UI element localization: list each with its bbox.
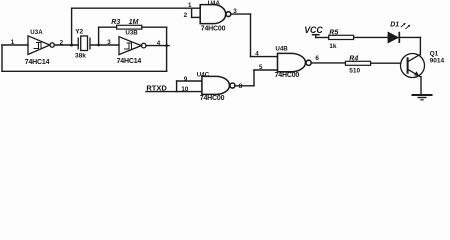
wire U3A output to crystal: [54, 44, 78, 46]
node junction at U3A output: [70, 44, 73, 47]
svg-text:74HC00: 74HC00: [201, 25, 226, 32]
wire VCC to R5: [316, 37, 329, 39]
svg-text:R3: R3: [111, 19, 120, 26]
svg-text:2: 2: [60, 39, 64, 46]
svg-text:74HC14: 74HC14: [117, 58, 142, 65]
wire U4A output: [231, 13, 250, 15]
op-amp U3A schmitt inverter 74HC14: [28, 36, 54, 55]
wire U3B output: [146, 45, 169, 47]
gate U4C NAND 74HC00: [202, 76, 235, 94]
svg-text:8: 8: [239, 83, 243, 90]
power VCC symbol: [312, 34, 320, 36]
svg-text:U4A: U4A: [208, 0, 221, 7]
svg-text:3: 3: [107, 39, 111, 46]
svg-text:1: 1: [11, 39, 15, 46]
wire R4 to Q1 base: [371, 62, 401, 64]
wire U4A pin2 vertical: [191, 8, 193, 17]
svg-text:2: 2: [184, 12, 188, 19]
node junction at R3 left: [97, 44, 100, 47]
svg-text:9014: 9014: [430, 58, 445, 65]
svg-text:R5: R5: [329, 30, 338, 37]
svg-text:74HC00: 74HC00: [275, 72, 300, 79]
wire U4C output: [235, 85, 254, 87]
svg-text:Q1: Q1: [430, 50, 439, 57]
wire R5 to D1: [354, 36, 388, 38]
wire VCC drop: [315, 35, 317, 38]
wire D1 to collector corner: [400, 36, 420, 38]
svg-text:4: 4: [157, 40, 161, 47]
svg-text:U3A: U3A: [30, 29, 43, 36]
svg-text:6: 6: [315, 55, 319, 62]
LED arrows of D1: [401, 23, 410, 29]
wire left vertical of feedback loop: [1, 45, 3, 71]
resistor R4: [345, 61, 370, 65]
wire U4C pin9: [177, 80, 202, 82]
node junction at U3B output: [165, 44, 168, 47]
wire feedback vertical to U3B output node: [166, 27, 168, 71]
wire pin9 vertical: [176, 81, 178, 92]
svg-text:Y2: Y2: [75, 29, 83, 36]
ground symbol: [412, 95, 433, 100]
wire crystal to U3B input: [90, 44, 119, 46]
wire U4B pin4: [251, 56, 278, 58]
gate U4A NAND 74HC00: [200, 5, 231, 24]
wire collector vertical: [419, 37, 421, 54]
diode D1: [388, 32, 399, 43]
wire R3 left lead: [99, 26, 117, 28]
svg-text:3: 3: [233, 8, 237, 15]
wire emitter vertical to ground: [420, 77, 422, 95]
wire U3A input: [2, 44, 28, 46]
svg-text:10: 10: [181, 86, 189, 93]
wire vertical from node 2 up to top rail: [71, 8, 73, 45]
wire U4A pin2 stub: [192, 16, 201, 18]
wire R3 left vertical: [98, 27, 100, 45]
svg-text:510: 510: [349, 68, 360, 75]
svg-text:4: 4: [255, 51, 259, 58]
svg-text:38k: 38k: [75, 52, 86, 59]
transistor Q1 NPN 9014: [401, 54, 425, 78]
wire vertical U4A out down to pin4: [250, 14, 252, 57]
svg-text:1M: 1M: [129, 19, 139, 26]
svg-text:9: 9: [184, 76, 188, 83]
svg-text:1k: 1k: [329, 43, 337, 50]
svg-text:D1: D1: [390, 22, 399, 29]
svg-text:VCC: VCC: [304, 25, 323, 35]
wire U4B pin5: [254, 69, 277, 71]
svg-text:U4B: U4B: [275, 46, 288, 53]
wire U4B output to R4: [311, 62, 345, 64]
op-amp U3B schmitt inverter 74HC14: [119, 37, 146, 55]
svg-text:U4C: U4C: [197, 71, 210, 78]
gate U4B NAND 74HC00: [278, 53, 312, 71]
wire bottom feedback run: [2, 70, 167, 72]
wire RTXD to U4C pin10: [146, 91, 202, 93]
svg-text:5: 5: [259, 64, 263, 71]
svg-text:RTXD: RTXD: [146, 84, 167, 93]
svg-text:1: 1: [188, 2, 192, 9]
wire vertical U4C out up to pin5: [253, 70, 255, 86]
resistor R3: [117, 25, 142, 29]
svg-text:R4: R4: [349, 56, 358, 63]
resistor R5: [329, 35, 354, 39]
crystal Y2: [78, 36, 90, 51]
svg-text:74HC00: 74HC00: [200, 95, 225, 102]
svg-text:74HC14: 74HC14: [25, 59, 50, 66]
wire R3 right lead: [142, 26, 167, 28]
svg-text:U3B: U3B: [125, 29, 138, 36]
wire top rail to U4A pin1: [72, 7, 201, 9]
